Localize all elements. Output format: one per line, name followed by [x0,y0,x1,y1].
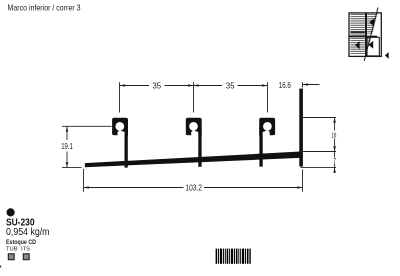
svg-text:35: 35 [226,82,235,91]
svg-text:35: 35 [153,82,162,91]
svg-text:16.6: 16.6 [279,81,291,90]
svg-text:19.1: 19.1 [61,142,73,151]
svg-text:TUB: TUB [6,247,18,253]
svg-text:103.2: 103.2 [185,183,202,192]
svg-text:0,954 kg/m: 0,954 kg/m [6,227,50,238]
svg-text:16: 16 [331,130,336,139]
svg-text:Estoque CD: Estoque CD [6,239,36,246]
svg-text:ITS: ITS [21,247,30,253]
svg-text:7: 7 [333,156,336,165]
svg-text:Marco inferior / correr 3: Marco inferior / correr 3 [8,4,81,13]
